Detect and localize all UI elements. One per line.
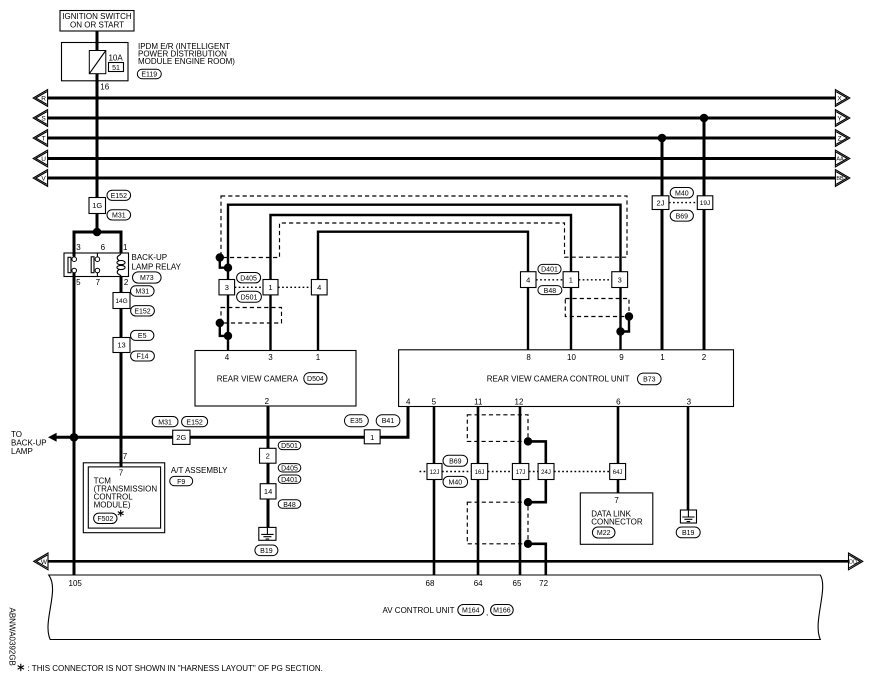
junction dot back-up lamp node bbox=[70, 433, 79, 442]
wire control unit pin 11 to AV unit pin 64 bbox=[477, 407, 480, 576]
wire relay pin 5 to back-up lamp node and AV unit pin 105 bbox=[73, 277, 76, 576]
connector label E152 bbox=[107, 190, 131, 200]
svg-text:64: 64 bbox=[474, 579, 483, 588]
AV unit pin 72 bbox=[539, 579, 548, 588]
svg-text:U: U bbox=[41, 156, 46, 163]
svg-text:E35: E35 bbox=[350, 418, 363, 425]
connector label B19 bbox=[676, 527, 700, 538]
svg-text:F502: F502 bbox=[97, 516, 113, 523]
svg-text:REAR VIEW CAMERA CONTROL UNIT: REAR VIEW CAMERA CONTROL UNIT bbox=[487, 374, 630, 383]
svg-text:D501: D501 bbox=[281, 443, 298, 450]
svg-text:MODULE): MODULE) bbox=[94, 500, 131, 509]
svg-text:3: 3 bbox=[76, 243, 81, 252]
svg-text:B41: B41 bbox=[382, 418, 395, 425]
connector label M22 bbox=[592, 527, 615, 538]
svg-text:B19: B19 bbox=[260, 548, 273, 555]
svg-text:3: 3 bbox=[268, 353, 273, 362]
svg-text:M31: M31 bbox=[158, 419, 172, 426]
svg-text:REAR VIEW CAMERA: REAR VIEW CAMERA bbox=[217, 374, 299, 383]
bus wire R-X bbox=[48, 97, 836, 100]
connector label M31 bbox=[131, 286, 155, 296]
svg-text:BACK-UP: BACK-UP bbox=[132, 253, 168, 262]
svg-text:B73: B73 bbox=[643, 377, 656, 384]
camera harness connector pin 4 (D405/D501) bbox=[311, 280, 327, 295]
page arrow R bbox=[33, 90, 47, 107]
connector 1G bbox=[89, 198, 106, 214]
pin 16 bbox=[100, 82, 109, 91]
svg-text:W: W bbox=[41, 559, 48, 566]
shield junction dot lower right bbox=[625, 312, 633, 320]
svg-text:E152: E152 bbox=[186, 419, 202, 426]
svg-text:M164: M164 bbox=[462, 608, 480, 615]
svg-text:64J: 64J bbox=[613, 470, 623, 476]
svg-text:M40: M40 bbox=[675, 190, 689, 197]
ground symbol B19 right bbox=[680, 510, 696, 523]
junction dot on bus T-Z bbox=[658, 134, 667, 143]
IPDM E/R text bbox=[138, 42, 235, 66]
svg-text:R: R bbox=[41, 95, 46, 102]
connector label B19 bbox=[255, 545, 278, 556]
connector label B48 bbox=[538, 286, 562, 295]
shield around CAN wires upper bbox=[467, 415, 528, 442]
page arrow AA bbox=[835, 150, 849, 167]
TCM inner box F502 bbox=[88, 467, 160, 528]
svg-text:A/T ASSEMBLY: A/T ASSEMBLY bbox=[171, 466, 228, 475]
dotted connector link 16J-17J bbox=[488, 471, 513, 473]
svg-text:24J: 24J bbox=[541, 470, 551, 476]
control unit pin 12 bbox=[515, 397, 524, 406]
wire control unit pin 12 to AV unit pin 65 bbox=[519, 407, 522, 576]
svg-text:E152: E152 bbox=[134, 308, 150, 315]
control unit pin 5 bbox=[432, 397, 437, 406]
relay pin 2 bbox=[124, 278, 129, 287]
shield drain through 24J upper bbox=[528, 441, 546, 463]
svg-text:D501: D501 bbox=[241, 294, 258, 301]
page arrow X bbox=[835, 90, 849, 107]
dotted connector link left of 12J bbox=[420, 471, 428, 473]
TCM pin 7 bbox=[119, 468, 124, 477]
footnote text bbox=[28, 664, 323, 673]
dotted connector link 2J-19J bbox=[669, 202, 697, 204]
camera pin 4 bbox=[225, 353, 230, 362]
svg-text:M40: M40 bbox=[448, 480, 462, 487]
control unit pin 1 bbox=[660, 353, 665, 362]
connector label M73 bbox=[133, 272, 162, 283]
control unit pin 9 bbox=[619, 353, 624, 362]
relay contact 3-5 bbox=[68, 253, 76, 277]
svg-text:ON OR START: ON OR START bbox=[70, 21, 124, 30]
svg-text:5: 5 bbox=[432, 397, 437, 406]
connector 1 (E35/B41) bbox=[364, 430, 380, 444]
wire fuse to connector 1G bbox=[96, 74, 99, 198]
TCM text bbox=[94, 476, 158, 509]
wire control unit pin 5 to AV unit pin 68 bbox=[433, 407, 436, 576]
shield drain to AV unit pin 72 bbox=[528, 544, 546, 575]
page arrow DD bbox=[849, 553, 863, 570]
data link connector box M22 bbox=[580, 493, 653, 544]
IPDM E/R fuse block box E119 bbox=[62, 43, 129, 81]
svg-text:E5: E5 bbox=[138, 333, 147, 340]
shield junction dot lower bbox=[524, 540, 532, 548]
shield below camera side connector bbox=[221, 308, 282, 324]
shield drain link to camera ground wire bbox=[220, 258, 228, 268]
AV control unit box M164 M166 bbox=[48, 575, 823, 640]
svg-text:105: 105 bbox=[69, 579, 83, 588]
control unit pin 4 bbox=[406, 397, 411, 406]
control unit pin 2 bbox=[702, 353, 707, 362]
wire camera pin 2 to ground B19 bbox=[267, 406, 270, 527]
connector label D401 bbox=[278, 475, 301, 484]
svg-text:T: T bbox=[42, 135, 46, 142]
svg-text:M22: M22 bbox=[597, 530, 611, 537]
wire control unit pin 3 to ground B19 bbox=[687, 407, 690, 511]
dotted connector link 17J-24J bbox=[529, 471, 538, 473]
svg-text:B69: B69 bbox=[676, 213, 689, 220]
svg-text:6: 6 bbox=[616, 397, 621, 406]
footnote asterisk star bbox=[18, 664, 24, 671]
label 10A bbox=[108, 54, 123, 63]
svg-text:2: 2 bbox=[265, 397, 270, 406]
control unit pin 10 bbox=[567, 353, 576, 362]
camera pin 2 bbox=[265, 397, 270, 406]
dotted connector link 12J-16J bbox=[442, 471, 471, 473]
svg-text:MODULE ENGINE ROOM): MODULE ENGINE ROOM) bbox=[138, 57, 235, 66]
shield around CAN wires lower bbox=[467, 502, 528, 544]
connector 13 bbox=[113, 338, 130, 353]
svg-text:1: 1 bbox=[569, 275, 573, 284]
svg-text:AA: AA bbox=[836, 157, 844, 163]
svg-text:M166: M166 bbox=[493, 608, 511, 615]
wire camera pin 3 to control unit pin 10 (shielded signal) bbox=[271, 215, 572, 351]
svg-text:4: 4 bbox=[406, 397, 411, 406]
svg-text:D401: D401 bbox=[281, 477, 298, 484]
connector label M40 bbox=[670, 188, 693, 198]
svg-text:S: S bbox=[41, 115, 46, 122]
connector 2 (D501/D405) bbox=[260, 448, 277, 463]
svg-text:AV CONTROL UNIT: AV CONTROL UNIT bbox=[383, 606, 455, 615]
connector 14 (D401/B48) bbox=[260, 484, 276, 499]
A/T assembly pin 7 bbox=[123, 452, 128, 461]
comma separator bbox=[486, 608, 488, 617]
page arrow U bbox=[33, 150, 47, 167]
page arrow BB bbox=[835, 170, 849, 187]
data link connector pin 7 bbox=[614, 496, 619, 505]
relay pin 7 bbox=[96, 278, 101, 287]
svg-text:LAMP RELAY: LAMP RELAY bbox=[132, 263, 182, 272]
svg-text:1: 1 bbox=[316, 353, 321, 362]
AV unit pin 65 bbox=[513, 579, 522, 588]
relay name text bbox=[132, 253, 182, 272]
svg-text:19J: 19J bbox=[700, 200, 710, 207]
diagram code ABNWA0392GB bbox=[7, 608, 16, 666]
svg-text:F9: F9 bbox=[177, 479, 185, 486]
shield junction dot lower left bbox=[216, 319, 224, 327]
svg-text:B19: B19 bbox=[682, 530, 695, 537]
connector label M164 bbox=[458, 605, 484, 616]
svg-text:V: V bbox=[41, 175, 46, 182]
connector label M31 bbox=[107, 210, 131, 220]
control unit harness connector pin 4 (D401/B48) bbox=[521, 272, 537, 288]
camera pin 3 bbox=[268, 353, 273, 362]
svg-text:E152: E152 bbox=[111, 193, 127, 200]
wire junction bar to relay pins 3 and 1 bbox=[74, 232, 121, 253]
svg-text:7: 7 bbox=[96, 278, 101, 287]
svg-text:F14: F14 bbox=[136, 354, 148, 361]
svg-text:D504: D504 bbox=[307, 376, 324, 383]
ignition switch box bbox=[60, 11, 134, 32]
connector 2J bbox=[652, 196, 669, 210]
svg-text:BB: BB bbox=[836, 176, 844, 182]
connector label E152 bbox=[131, 306, 155, 316]
connector 2G bbox=[173, 430, 190, 444]
connector 64J bbox=[610, 464, 626, 480]
connector E119 bbox=[137, 69, 161, 78]
svg-text:2: 2 bbox=[266, 452, 270, 461]
wire camera pin 4 to control unit pin 9 (shielded ground) bbox=[228, 205, 621, 351]
svg-text:8: 8 bbox=[526, 353, 531, 362]
dotted connector link 1-3 bbox=[579, 279, 612, 281]
wire back-up lamp feed to control unit pin 4 bbox=[56, 407, 408, 438]
connector label M40 bbox=[443, 476, 468, 487]
junction node bbox=[93, 228, 102, 237]
back-up lamp relay M73 box bbox=[64, 253, 129, 277]
svg-text:5: 5 bbox=[76, 278, 81, 287]
bus wire U-AA bbox=[48, 157, 836, 160]
connector 19J bbox=[697, 196, 713, 210]
connector label B41 bbox=[376, 415, 400, 427]
connector 14G bbox=[113, 293, 130, 309]
svg-text:65: 65 bbox=[513, 579, 522, 588]
fuse number 51 bbox=[109, 63, 124, 73]
ground wire junction dot bbox=[224, 264, 232, 272]
camera harness connector pin 1 (D405/D501) bbox=[263, 280, 278, 295]
svg-text:E119: E119 bbox=[141, 72, 157, 79]
svg-text:14G: 14G bbox=[115, 298, 127, 305]
svg-text:72: 72 bbox=[539, 579, 548, 588]
svg-text:4: 4 bbox=[225, 353, 230, 362]
connector label E35 bbox=[345, 415, 369, 427]
svg-text:CONNECTOR: CONNECTOR bbox=[591, 518, 643, 527]
svg-text:2G: 2G bbox=[176, 433, 186, 442]
relay pin 5 bbox=[76, 278, 81, 287]
connector 17J bbox=[512, 464, 528, 480]
page arrow Y bbox=[835, 110, 849, 127]
svg-text:12: 12 bbox=[515, 397, 524, 406]
svg-text:DD: DD bbox=[849, 559, 857, 565]
ground wire junction dot lower left bbox=[224, 332, 232, 340]
shield drain link lower left bbox=[220, 323, 228, 336]
wire bus S-Y to control unit pin 2 bbox=[703, 118, 706, 350]
svg-text:,: , bbox=[486, 608, 488, 617]
page arrow T bbox=[33, 130, 47, 147]
connector label E5 bbox=[131, 330, 154, 340]
svg-text:68: 68 bbox=[426, 579, 435, 588]
control unit harness connector pin 3 (D401/B48) bbox=[612, 272, 628, 288]
svg-text:ABNWA0392GB: ABNWA0392GB bbox=[7, 608, 16, 666]
data link connector text bbox=[591, 510, 643, 527]
page arrow V bbox=[33, 170, 47, 187]
svg-text:Y: Y bbox=[837, 115, 842, 122]
connector label D501 bbox=[278, 441, 301, 450]
wire camera pin 1 to control unit pin 8 bbox=[318, 232, 528, 351]
svg-text:Z: Z bbox=[838, 135, 842, 142]
AV unit pin 105 bbox=[69, 579, 83, 588]
shield around camera signal wires bbox=[221, 196, 627, 258]
connector label B69 bbox=[670, 210, 693, 221]
svg-text:M31: M31 bbox=[135, 289, 149, 296]
svg-text:51: 51 bbox=[112, 65, 120, 72]
page arrow W bbox=[34, 553, 48, 570]
connector label B69 bbox=[443, 455, 468, 466]
bus wire W-DD bbox=[48, 560, 849, 563]
svg-text:3: 3 bbox=[618, 275, 622, 284]
asterisk mark bbox=[118, 510, 124, 517]
to back-up lamp text bbox=[11, 430, 47, 456]
fuse 10A 51 bbox=[89, 51, 106, 74]
svg-text:LAMP: LAMP bbox=[11, 447, 33, 456]
rear view camera name bbox=[217, 374, 299, 383]
control unit pin 8 bbox=[526, 353, 531, 362]
connector label D504 bbox=[304, 373, 327, 385]
svg-text:D405: D405 bbox=[281, 466, 298, 473]
svg-text:3: 3 bbox=[687, 397, 692, 406]
svg-text:12J: 12J bbox=[430, 470, 440, 476]
control unit pin 6 bbox=[616, 397, 621, 406]
svg-text:10: 10 bbox=[567, 353, 576, 362]
svg-text:17J: 17J bbox=[516, 470, 526, 476]
svg-text:B48: B48 bbox=[283, 502, 296, 509]
page arrow S bbox=[33, 110, 47, 127]
dotted connector link 4-1 bbox=[536, 279, 563, 281]
wire control unit pin 6 to data link connector bbox=[617, 407, 620, 493]
svg-text:2J: 2J bbox=[657, 198, 665, 207]
svg-text:7: 7 bbox=[123, 452, 128, 461]
shield drain link lower right bbox=[621, 317, 630, 332]
svg-text:13: 13 bbox=[117, 341, 125, 350]
svg-text:D405: D405 bbox=[240, 275, 257, 282]
svg-text:: THIS CONNECTOR IS NOT SHOWN: : THIS CONNECTOR IS NOT SHOWN IN "HARNES… bbox=[28, 664, 323, 673]
dotted connector link 3-1 bbox=[235, 286, 263, 288]
shield junction dot bbox=[216, 253, 224, 261]
svg-text:1: 1 bbox=[268, 283, 272, 292]
bus wire S-Y bbox=[48, 117, 836, 120]
wire relay pin 2 to TCM pin 7 bbox=[120, 277, 123, 467]
rear view camera control unit box B73 bbox=[399, 350, 734, 407]
page arrow Z bbox=[835, 130, 849, 147]
A/T assembly text bbox=[171, 466, 228, 475]
connector label M166 bbox=[491, 605, 514, 616]
svg-text:16: 16 bbox=[100, 82, 109, 91]
to back-up lamp arrow bbox=[48, 433, 57, 442]
svg-text:16J: 16J bbox=[475, 470, 485, 476]
ground symbol B19 bbox=[259, 527, 276, 540]
wire bus T-Z to control unit pin 1 bbox=[661, 138, 664, 350]
junction dot on bus S-Y bbox=[700, 114, 709, 123]
control unit pin 3 bbox=[687, 397, 692, 406]
wire 1G to junction bbox=[96, 214, 99, 233]
bus wire T-Z bbox=[48, 137, 836, 140]
relay pin 3 bbox=[76, 243, 81, 252]
svg-text:M73: M73 bbox=[140, 275, 154, 282]
rear view camera box D504 bbox=[195, 351, 356, 407]
connector label F14 bbox=[131, 351, 155, 361]
svg-text:1: 1 bbox=[123, 243, 128, 252]
svg-text:1: 1 bbox=[660, 353, 665, 362]
svg-text:9: 9 bbox=[619, 353, 624, 362]
svg-text:B69: B69 bbox=[449, 458, 462, 465]
relay pin 6 bbox=[101, 243, 106, 252]
rear view camera control unit name bbox=[487, 374, 630, 383]
svg-text:7: 7 bbox=[614, 496, 619, 505]
connector label B73 bbox=[638, 373, 662, 385]
connector label D405 bbox=[237, 273, 261, 283]
svg-text:1G: 1G bbox=[92, 201, 102, 210]
connector label D401 bbox=[538, 264, 561, 273]
relay contact 6-7 bbox=[91, 253, 100, 277]
svg-text:4: 4 bbox=[317, 283, 321, 292]
svg-text:11: 11 bbox=[474, 397, 483, 406]
bus wire V-BB bbox=[48, 177, 836, 180]
AV control unit name bbox=[383, 606, 455, 615]
connector 16J bbox=[471, 464, 487, 480]
connector label D405 bbox=[278, 464, 301, 473]
svg-text:D401: D401 bbox=[541, 267, 558, 274]
shield drain from 24J to lower shield bbox=[528, 480, 546, 503]
svg-text:2: 2 bbox=[124, 278, 129, 287]
svg-text:10A: 10A bbox=[108, 54, 123, 63]
AV unit pin 64 bbox=[474, 579, 483, 588]
connector label M31 bbox=[152, 417, 178, 427]
svg-text:X: X bbox=[837, 95, 842, 102]
relay pin 1 bbox=[123, 243, 128, 252]
connector 12J bbox=[427, 464, 442, 480]
svg-text:7: 7 bbox=[119, 468, 124, 477]
shield below control unit side connector bbox=[565, 299, 629, 317]
shield junction dot upper bbox=[524, 437, 532, 445]
A/T assembly outer box bbox=[83, 463, 164, 533]
svg-text:3: 3 bbox=[225, 283, 229, 292]
svg-text:1: 1 bbox=[370, 433, 374, 442]
connector label F502 bbox=[94, 513, 117, 523]
connector label F9 bbox=[170, 476, 193, 485]
svg-text:B48: B48 bbox=[544, 288, 557, 295]
shield junction dot middle bbox=[524, 498, 532, 506]
connector label D501 bbox=[237, 291, 262, 302]
svg-text:2: 2 bbox=[702, 353, 707, 362]
svg-text:4: 4 bbox=[526, 275, 530, 284]
svg-text:6: 6 bbox=[101, 243, 106, 252]
ground wire junction dot lower right bbox=[616, 327, 624, 335]
svg-text:M31: M31 bbox=[112, 212, 126, 219]
control unit harness connector pin 1 (D401/B48) bbox=[563, 272, 579, 288]
dotted connector link 1-4 bbox=[278, 286, 311, 288]
dotted connector link 24J-64J bbox=[554, 471, 610, 473]
relay coil 1-2 bbox=[117, 253, 125, 277]
AV unit pin 68 bbox=[426, 579, 435, 588]
connector label B48 bbox=[278, 500, 301, 509]
connector label E152 bbox=[182, 417, 208, 427]
wire ignition switch to fuse bbox=[96, 31, 99, 51]
camera harness connector pin 3 (D405/D501) bbox=[219, 280, 235, 295]
control unit pin 11 bbox=[474, 397, 483, 406]
camera pin 1 bbox=[316, 353, 321, 362]
connector 24J bbox=[538, 464, 554, 480]
svg-text:14: 14 bbox=[264, 487, 272, 496]
